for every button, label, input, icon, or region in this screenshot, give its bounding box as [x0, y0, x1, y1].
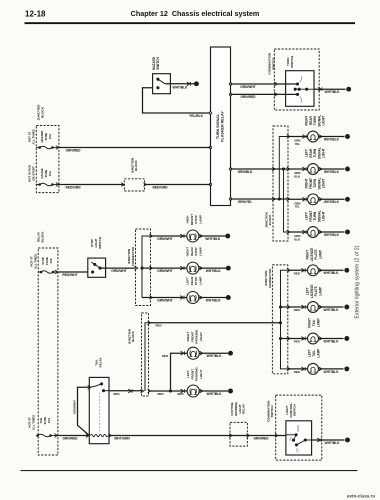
- wire WHT/BLK left rear stop lamp to ground: [199, 297, 226, 299]
- wire inside junction block to left front bulb: [284, 169, 289, 232]
- stop light switch S2: [88, 258, 106, 277]
- wire GRN/WHT stop light switch to junction connector: [100, 267, 136, 269]
- junction node: [282, 167, 285, 170]
- svg-text:YEL: YEL: [295, 205, 301, 209]
- svg-text:WHT/BLK: WHT/BLK: [324, 271, 340, 275]
- combination switch (top): [274, 49, 319, 110]
- hazard switch S1: [153, 74, 171, 94]
- svg-text:GRN/WHT: GRN/WHT: [157, 298, 173, 302]
- wire YEL/BLK hazard switch to flasher relay: [143, 88, 211, 113]
- right rear turn signal light bulb: [288, 136, 308, 138]
- svg-text:RED/GRN: RED/GRN: [153, 185, 169, 189]
- junction node: [278, 197, 281, 200]
- wire WHT/BLK left front turn signal light to ground: [318, 231, 344, 233]
- svg-text:Exterior lighting system (2 of: Exterior lighting system (2 of 2): [355, 245, 361, 318]
- right front turn signal light bulb: [288, 198, 308, 200]
- svg-text:WHT/BLK: WHT/BLK: [324, 170, 340, 174]
- svg-text:GRN/WHT: GRN/WHT: [157, 269, 173, 273]
- ground left tail lamp: [344, 366, 349, 371]
- svg-text:RED: RED: [113, 392, 119, 396]
- svg-text:TURN SIGNALFLASHER RELAY: TURN SIGNALFLASHER RELAY: [216, 111, 225, 142]
- svg-text:RED: RED: [294, 271, 300, 275]
- wire WHT/BLK right rear stop lamp to ground: [199, 267, 226, 269]
- svg-text:RED: RED: [177, 392, 183, 396]
- wire WHT/GRN tail relay coil to daytime running light relay: [109, 435, 230, 437]
- right tail lamp: [287, 337, 290, 341]
- junction block (mid, pass-through): [124, 179, 144, 191]
- footer rule: [21, 470, 358, 471]
- relay contact: [88, 385, 91, 389]
- wire WHT/BLK right front turn signal light to ground: [318, 198, 344, 200]
- relay block: [38, 248, 58, 455]
- wire GRN/BLK relay to junction block: [231, 168, 274, 170]
- riser to right front parking light: [171, 353, 188, 391]
- combination switch (bottom): [276, 395, 322, 460]
- svg-text:TURNSWITCH: TURNSWITCH: [286, 56, 294, 68]
- wire WHT/BLK turn switch to ground: [314, 88, 346, 90]
- high mount stop lamp: [151, 235, 187, 237]
- wire RED/GRN junction block to flasher relay: [145, 184, 211, 186]
- svg-text:HAZARDSWITCH: HAZARDSWITCH: [152, 56, 160, 70]
- wire RED/GRN fuse to junction block: [59, 184, 124, 186]
- svg-text:WHT/BLK: WHT/BLK: [324, 233, 340, 237]
- left tail lamp: [287, 367, 290, 371]
- junction node: [140, 267, 143, 270]
- ground left rear stop lamp: [226, 295, 231, 300]
- wire WHT/BLK right front parking light to ground: [199, 352, 228, 354]
- wire GRN/RED tail fuse to tail relay: [58, 435, 89, 437]
- junction node: [279, 337, 282, 340]
- ground high mount stop lamp: [225, 234, 230, 239]
- stop feed bus: [142, 236, 151, 298]
- svg-text:WHT/BLK: WHT/BLK: [206, 269, 222, 273]
- svg-text:LEFTREARSTOPLAMP: LEFTREARSTOPLAMP: [186, 276, 203, 286]
- right rear stop lamp: [151, 267, 187, 269]
- svg-text:RED: RED: [162, 354, 168, 358]
- svg-text:WHT/BLK: WHT/BLK: [206, 298, 222, 302]
- svg-text:GRN/RED: GRN/RED: [241, 95, 257, 99]
- svg-text:GRN/BLK: GRN/BLK: [238, 170, 253, 174]
- ground right license plate lamp: [344, 268, 349, 273]
- ground left rear turn signal light: [345, 167, 350, 172]
- left license plate lamp: [287, 305, 290, 309]
- junction node parking: [169, 389, 172, 392]
- svg-text:GRN/WHT: GRN/WHT: [73, 400, 77, 414]
- wire WHT/BLK light control switch to ground: [312, 439, 345, 441]
- right front parking light: [181, 351, 184, 355]
- wire WHT/BLK right rear turn signal light to ground: [318, 136, 344, 138]
- svg-text:RED: RED: [294, 340, 300, 344]
- svg-text:OFF: OFF: [298, 447, 300, 452]
- turn signal flasher relay U1: [211, 47, 231, 206]
- ground after turn switch: [346, 87, 351, 92]
- relay pins: [209, 112, 211, 114]
- wire WHT/BLK left front parking light to ground: [199, 390, 228, 392]
- svg-text:JUNCTIONCONNECTOR: JUNCTIONCONNECTOR: [127, 246, 135, 266]
- left rear stop lamp: [151, 297, 187, 299]
- svg-text:WHT/BLK: WHT/BLK: [324, 308, 340, 312]
- relay coil: [90, 434, 108, 436]
- license/tail bus: [281, 270, 288, 323]
- ground left license plate lamp: [344, 305, 349, 310]
- svg-text:HEAD: HEAD: [297, 425, 300, 432]
- left front turn signal light bulb: [288, 231, 308, 233]
- svg-text:RIGHTREARSTOPLAMP: RIGHTREARSTOPLAMP: [186, 246, 203, 256]
- svg-text:LEFTTAILLAMP: LEFTTAILLAMP: [308, 349, 321, 358]
- svg-text:WHT/BLK: WHT/BLK: [173, 85, 189, 89]
- wire GRN/YEL relay to junction block: [231, 198, 274, 200]
- ground left front parking light: [228, 389, 233, 394]
- svg-text:GRN/WHT: GRN/WHT: [157, 237, 173, 241]
- wire inside junction block to right rear bulb: [279, 137, 288, 200]
- wire WHT/BLK right license plate lamp to ground: [318, 269, 343, 271]
- svg-text:WHT/BLK: WHT/BLK: [325, 441, 341, 445]
- svg-text:WHT/BLK: WHT/BLK: [324, 200, 340, 204]
- svg-text:RED: RED: [157, 392, 163, 396]
- svg-text:BLK: BLK: [294, 174, 300, 178]
- wire WHT/BLK left tail lamp to ground: [318, 368, 343, 370]
- wire GRN/WHT relay to combination switch: [231, 83, 298, 85]
- svg-text:WHT/BLK: WHT/BLK: [205, 237, 221, 241]
- ground light control switch: [345, 438, 350, 443]
- light control switch: [286, 421, 312, 455]
- svg-text:RED: RED: [155, 324, 161, 328]
- svg-text:RED/WHT: RED/WHT: [62, 273, 77, 277]
- svg-text:GRN/RED: GRN/RED: [254, 436, 270, 440]
- wire GRN/RED daytime relay to combination switch: [247, 435, 286, 437]
- turn switch: [286, 71, 314, 107]
- ground after hazard switch: [194, 81, 199, 86]
- ground right rear turn signal light: [345, 134, 350, 139]
- wire GRN/WHT relay contact feed: [78, 387, 90, 435]
- svg-text:WHT/BLK: WHT/BLK: [324, 137, 340, 141]
- svg-text:WHT/BLK: WHT/BLK: [324, 339, 340, 343]
- ground right rear stop lamp: [226, 266, 231, 271]
- svg-text:YEL/BLK: YEL/BLK: [189, 114, 204, 118]
- svg-text:RED: RED: [294, 308, 300, 312]
- wire WHT/BLK hazard switch to ground: [165, 83, 194, 85]
- svg-text:HOT IN RUNOR START: HOT IN RUNOR START: [28, 165, 36, 182]
- svg-text:GRN/WHT: GRN/WHT: [240, 85, 256, 89]
- junction node: [279, 305, 282, 308]
- junction block (parking feed): [142, 313, 149, 396]
- svg-text:Chapter 12 Chassis electrical: Chapter 12 Chassis electrical system: [131, 9, 260, 18]
- wire WHT/BLK high mount stop lamp to ground: [199, 235, 226, 237]
- wire RED junction block to license and tail lamps: [149, 322, 281, 324]
- svg-text:RED/GRN: RED/GRN: [66, 185, 82, 189]
- junction node: [279, 321, 282, 324]
- svg-text:RED: RED: [294, 370, 300, 374]
- svg-text:GRN/WHT: GRN/WHT: [111, 269, 127, 273]
- svg-text:RIGHTFRONTTURNSIGNALLIGHT: RIGHTFRONTTURNSIGNALLIGHT: [305, 177, 326, 189]
- right license plate lamp: [287, 268, 290, 272]
- wire GRN/RED relay to combination switch: [231, 93, 298, 95]
- svg-text:WHT/BLK: WHT/BLK: [207, 354, 223, 358]
- svg-text:JUNCTIONCONNECTOR: JUNCTIONCONNECTOR: [264, 268, 272, 288]
- wire WHT/BLK right tail lamp to ground: [318, 338, 343, 340]
- svg-text:WHT/BLK: WHT/BLK: [325, 90, 341, 94]
- svg-text:WHT/BLK: WHT/BLK: [207, 392, 223, 396]
- wire RED/WHT stop fuse to stop light switch: [58, 271, 93, 273]
- header rule: [25, 22, 356, 24]
- ground left front turn signal light: [345, 230, 350, 235]
- junction connector (license and tail lamps): [272, 265, 287, 374]
- junction block (top left): [36, 126, 59, 193]
- ground right tail lamp: [344, 336, 349, 341]
- svg-text:WHT/BLK: WHT/BLK: [324, 370, 340, 374]
- svg-text:GRN/RED: GRN/RED: [66, 148, 82, 152]
- junction connector (stop lamps): [136, 229, 151, 306]
- svg-text:BLK: BLK: [294, 237, 300, 241]
- svg-text:12-18: 12-18: [25, 10, 46, 19]
- left rear turn signal light bulb: [288, 168, 308, 170]
- ground right front parking light: [228, 351, 233, 356]
- svg-text:GRN/RED: GRN/RED: [63, 436, 79, 440]
- daytime running light relay: [230, 422, 247, 446]
- junction block (turn signal distribution): [273, 126, 288, 241]
- svg-text:RELAYBLOCK: RELAYBLOCK: [37, 231, 45, 243]
- svg-text:avto-class.ru: avto-class.ru: [347, 494, 376, 499]
- svg-text:GRN/YEL: GRN/YEL: [238, 200, 252, 204]
- license/tail feed riser: [145, 323, 149, 391]
- wire RED to parking lamps: [149, 390, 188, 392]
- wire WHT/BLK left license plate lamp to ground: [318, 306, 343, 308]
- svg-text:WHT/GRN: WHT/GRN: [114, 436, 130, 440]
- svg-text:RIGHTREARTURNSIGNALLIGHT: RIGHTREARTURNSIGNALLIGHT: [305, 115, 326, 127]
- tail relay K1: [89, 377, 109, 443]
- ground right front turn signal light: [345, 197, 350, 202]
- svg-text:YEL: YEL: [295, 142, 301, 146]
- wire RED tail relay to parking lights: [109, 390, 142, 392]
- wire WHT/BLK left rear turn signal light to ground: [318, 168, 344, 170]
- wire GRN/RED fuse to flasher relay: [59, 147, 211, 149]
